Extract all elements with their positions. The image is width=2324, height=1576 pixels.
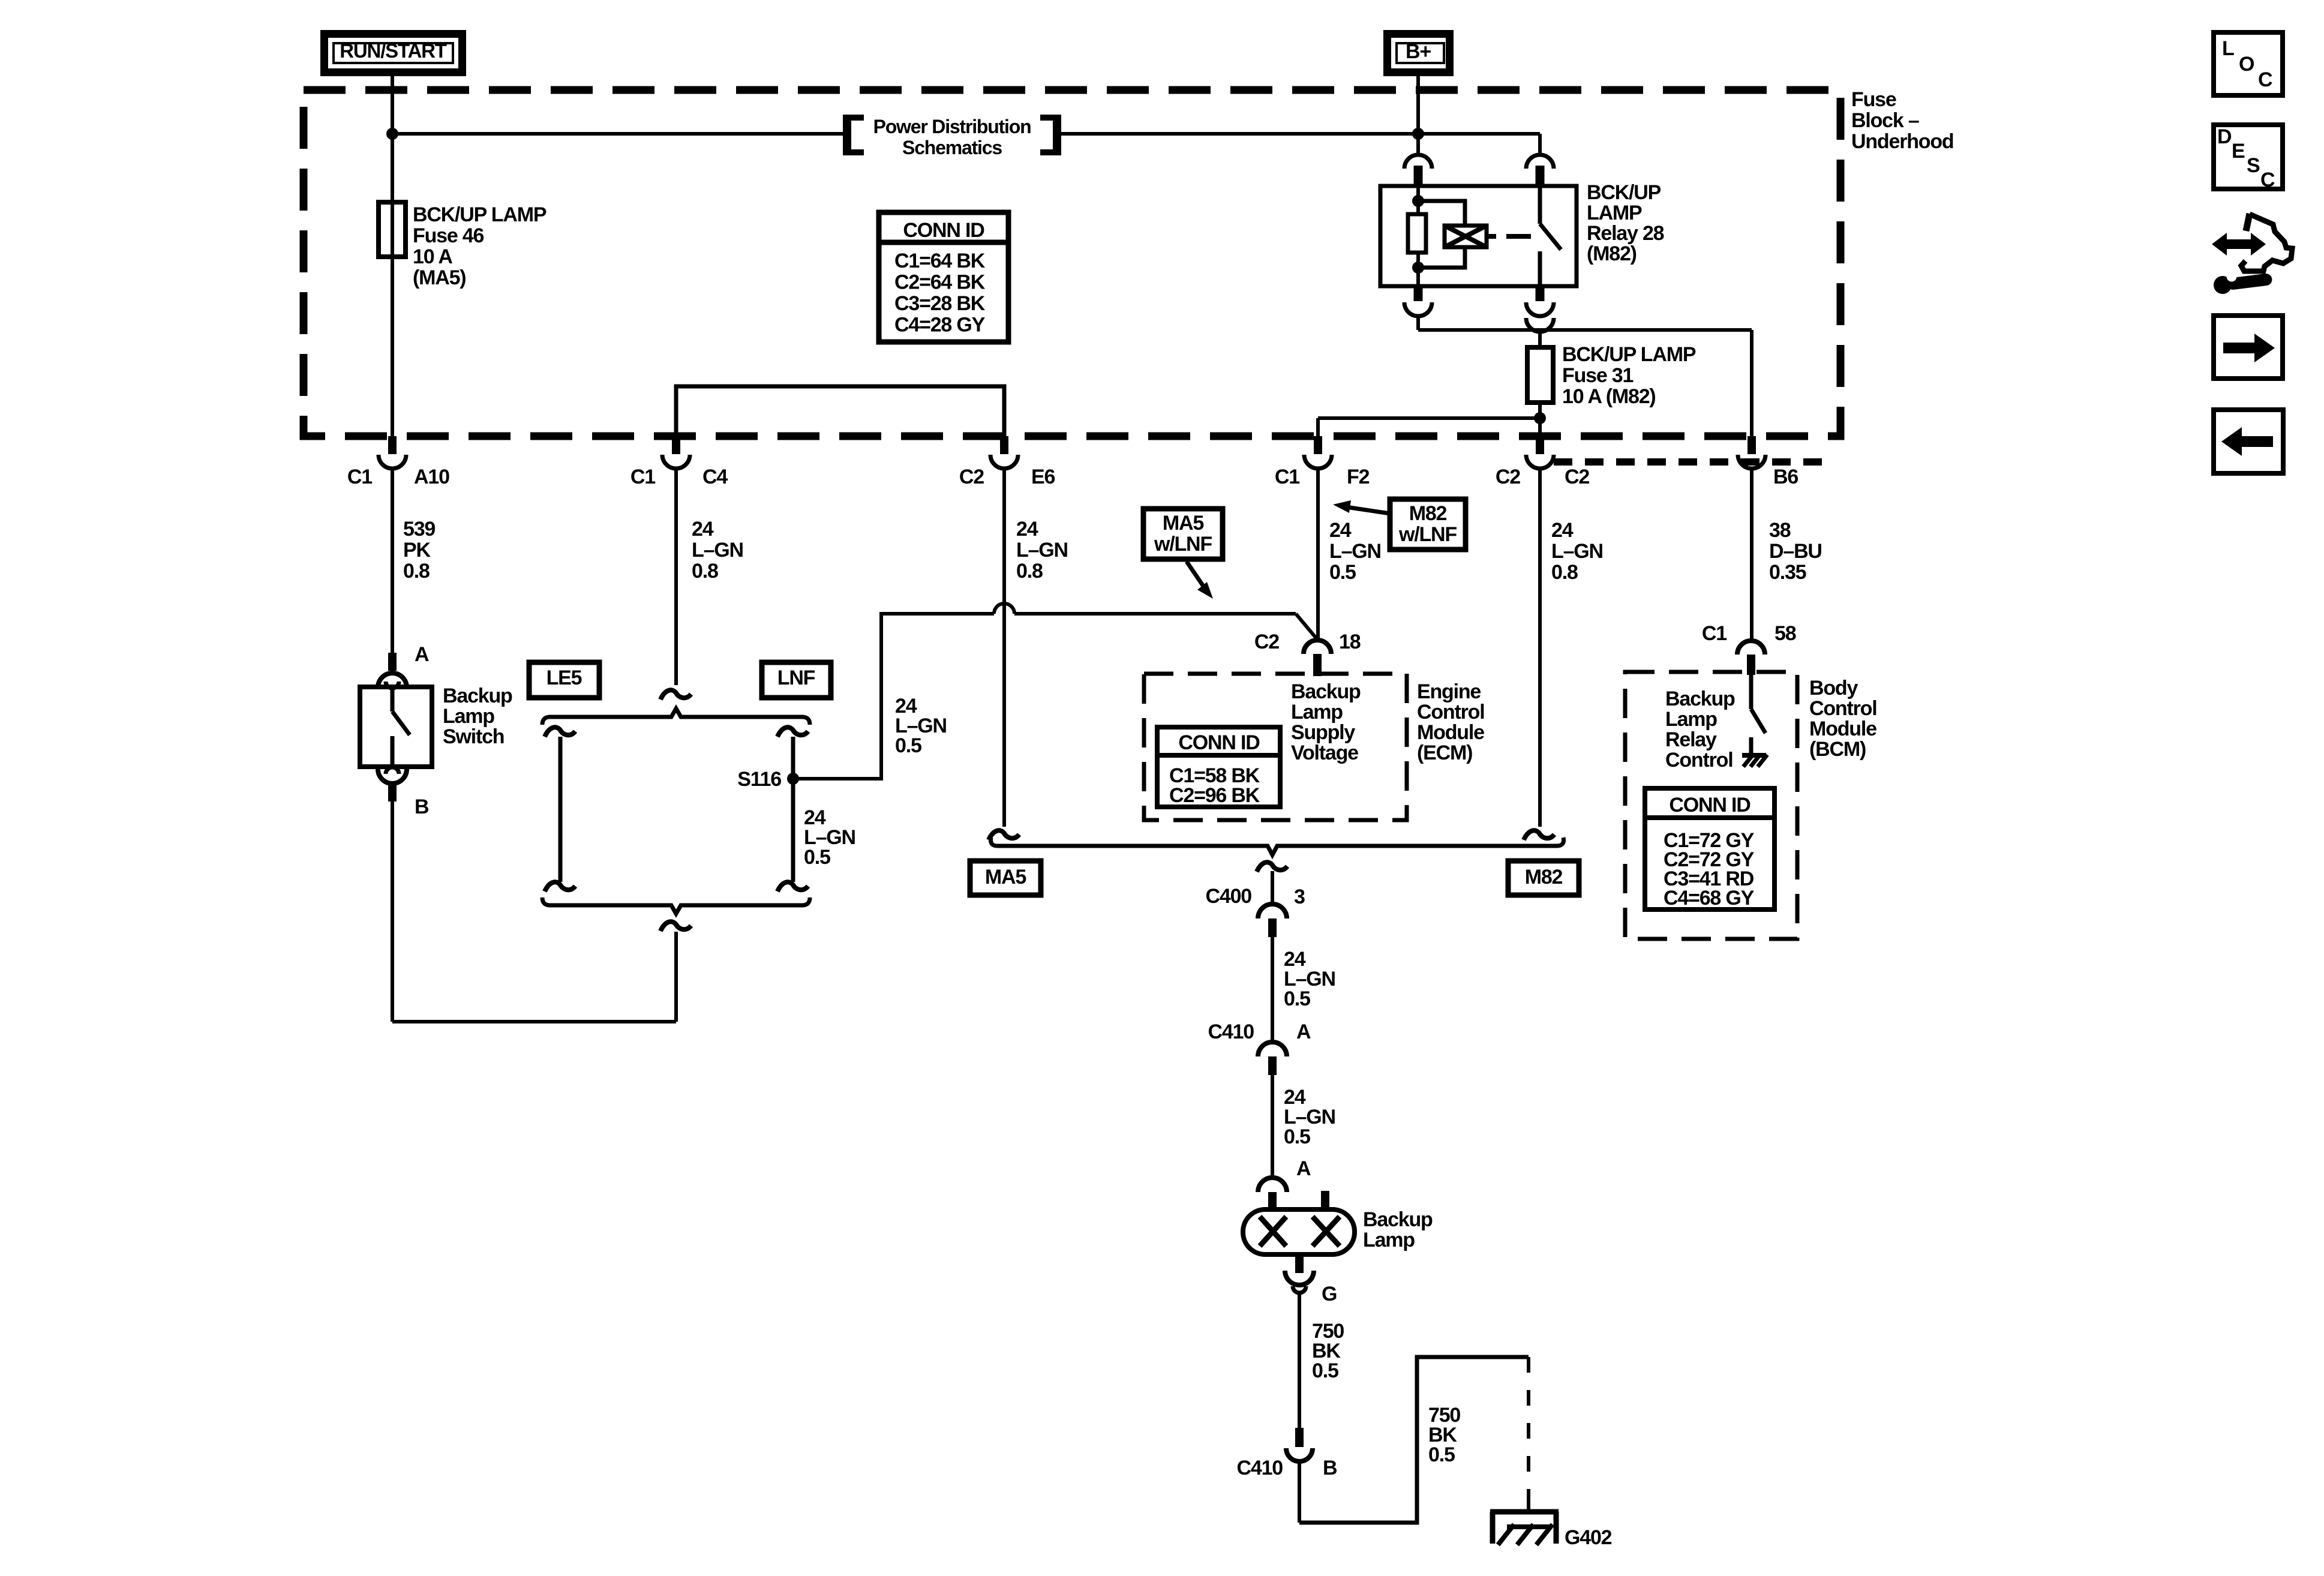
svg-text:0.8: 0.8 — [1551, 561, 1578, 584]
svg-text:(BCM): (BCM) — [1809, 738, 1866, 761]
svg-text:0.5: 0.5 — [1329, 561, 1356, 584]
svg-text:C: C — [2260, 169, 2275, 191]
svg-text:0.8: 0.8 — [1016, 560, 1043, 583]
svg-text:Control: Control — [1809, 697, 1876, 720]
svg-text:C1: C1 — [1702, 622, 1727, 645]
svg-text:Supply: Supply — [1291, 721, 1355, 744]
svg-text:Lamp: Lamp — [1665, 708, 1717, 731]
svg-text:L–GN: L–GN — [1551, 540, 1603, 563]
svg-text:BCK/UP LAMP: BCK/UP LAMP — [1562, 343, 1696, 366]
svg-text:58: 58 — [1774, 622, 1796, 645]
svg-text:C2=96 BK: C2=96 BK — [1169, 784, 1260, 807]
svg-text:C2: C2 — [959, 466, 984, 488]
svg-text:Lamp: Lamp — [1363, 1229, 1415, 1251]
svg-text:10 A (M82): 10 A (M82) — [1562, 385, 1656, 408]
svg-text:BCK/UP LAMP: BCK/UP LAMP — [413, 203, 547, 226]
svg-text:0.5: 0.5 — [1284, 1125, 1310, 1148]
svg-text:Lamp: Lamp — [443, 705, 494, 728]
svg-text:Lamp: Lamp — [1291, 701, 1343, 724]
svg-text:Fuse 46: Fuse 46 — [413, 224, 484, 247]
svg-text:24: 24 — [1016, 518, 1038, 541]
svg-text:0.5: 0.5 — [1284, 987, 1310, 1010]
svg-text:E: E — [2232, 140, 2245, 163]
svg-text:B6: B6 — [1773, 466, 1798, 488]
svg-text:C1: C1 — [1275, 466, 1299, 488]
svg-text:A: A — [1296, 1020, 1311, 1043]
svg-text:LE5: LE5 — [547, 667, 582, 689]
svg-text:BCK/UP: BCK/UP — [1587, 181, 1661, 204]
svg-text:L–GN: L–GN — [1016, 539, 1068, 562]
svg-text:Schematics: Schematics — [902, 137, 1002, 158]
svg-text:C4=68 GY: C4=68 GY — [1664, 887, 1755, 909]
svg-text:24: 24 — [1551, 519, 1574, 542]
svg-text:CONN ID: CONN ID — [1178, 731, 1260, 754]
svg-text:Body: Body — [1809, 677, 1858, 700]
svg-text:(ECM): (ECM) — [1417, 742, 1472, 764]
svg-text:Block –: Block – — [1851, 109, 1919, 132]
svg-text:B: B — [415, 795, 429, 818]
svg-text:C2: C2 — [1565, 466, 1589, 488]
svg-text:Control: Control — [1417, 701, 1484, 724]
svg-text:0.5: 0.5 — [1312, 1359, 1338, 1382]
svg-text:0.8: 0.8 — [403, 560, 430, 583]
svg-text:Power Distribution: Power Distribution — [873, 116, 1031, 137]
svg-text:Control: Control — [1665, 749, 1733, 772]
svg-text:Backup: Backup — [1291, 680, 1361, 703]
svg-text:G: G — [1322, 1283, 1337, 1305]
svg-text:C3=28 BK: C3=28 BK — [894, 292, 986, 315]
svg-text:0.5: 0.5 — [1428, 1443, 1455, 1466]
svg-text:A: A — [415, 643, 429, 666]
svg-text:Backup: Backup — [443, 685, 512, 707]
svg-text:O: O — [2239, 53, 2254, 76]
svg-text:M82: M82 — [1409, 502, 1447, 525]
svg-text:Fuse: Fuse — [1851, 88, 1896, 111]
svg-text:Backup: Backup — [1363, 1208, 1433, 1231]
svg-text:C: C — [2258, 68, 2272, 91]
svg-text:A: A — [1296, 1157, 1311, 1180]
svg-text:L: L — [2222, 37, 2234, 60]
svg-text:Relay: Relay — [1665, 728, 1717, 751]
svg-text:CONN ID: CONN ID — [1669, 794, 1750, 816]
svg-text:0.35: 0.35 — [1769, 561, 1806, 584]
svg-text:Module: Module — [1417, 721, 1484, 744]
svg-text:Underhood: Underhood — [1851, 130, 1954, 153]
svg-text:PK: PK — [403, 539, 431, 562]
svg-text:L–GN: L–GN — [1329, 540, 1381, 563]
svg-text:0.5: 0.5 — [895, 734, 921, 757]
svg-text:(M82): (M82) — [1587, 242, 1637, 265]
svg-text:w/LNF: w/LNF — [1398, 523, 1457, 546]
svg-text:CONN ID: CONN ID — [903, 219, 984, 242]
svg-text:C410: C410 — [1237, 1457, 1283, 1479]
svg-text:Switch: Switch — [443, 725, 504, 748]
svg-text:24: 24 — [692, 518, 714, 541]
svg-text:S116: S116 — [737, 768, 781, 791]
svg-text:C400: C400 — [1206, 885, 1252, 908]
svg-text:Fuse 31: Fuse 31 — [1562, 364, 1634, 387]
svg-text:0.8: 0.8 — [692, 560, 718, 583]
svg-text:10 A: 10 A — [413, 245, 452, 268]
svg-text:Backup: Backup — [1665, 688, 1735, 710]
svg-text:C2=64 BK: C2=64 BK — [894, 271, 986, 294]
svg-text:D–BU: D–BU — [1769, 540, 1822, 563]
svg-text:G402: G402 — [1565, 1526, 1612, 1549]
svg-text:C2: C2 — [1496, 466, 1520, 488]
svg-text:C1: C1 — [630, 466, 655, 488]
svg-text:C4: C4 — [702, 466, 728, 488]
svg-text:0.5: 0.5 — [804, 846, 830, 869]
svg-text:L–GN: L–GN — [692, 539, 743, 562]
svg-text:MA5: MA5 — [1163, 512, 1203, 535]
svg-text:D: D — [2217, 125, 2232, 148]
svg-text:Voltage: Voltage — [1291, 742, 1358, 764]
svg-text:3: 3 — [1294, 885, 1305, 908]
svg-text:Relay 28: Relay 28 — [1587, 222, 1664, 245]
svg-text:C2: C2 — [1254, 631, 1279, 653]
svg-text:LNF: LNF — [777, 667, 815, 689]
svg-text:C410: C410 — [1208, 1020, 1254, 1043]
svg-text:18: 18 — [1339, 631, 1361, 653]
svg-text:38: 38 — [1769, 519, 1791, 542]
svg-text:Engine: Engine — [1417, 680, 1481, 703]
svg-text:C4=28 GY: C4=28 GY — [894, 314, 986, 337]
svg-text:E6: E6 — [1031, 466, 1055, 488]
svg-text:C1: C1 — [347, 466, 372, 488]
svg-text:(MA5): (MA5) — [413, 266, 466, 289]
svg-text:539: 539 — [403, 518, 435, 541]
svg-text:S: S — [2247, 154, 2260, 177]
svg-text:Module: Module — [1809, 718, 1876, 740]
svg-text:LAMP: LAMP — [1587, 202, 1642, 224]
svg-text:B+: B+ — [1406, 40, 1431, 63]
svg-text:RUN/START: RUN/START — [340, 40, 446, 62]
svg-text:w/LNF: w/LNF — [1154, 533, 1212, 556]
svg-text:24: 24 — [1329, 519, 1352, 542]
svg-text:B: B — [1323, 1457, 1337, 1479]
svg-text:C1=64 BK: C1=64 BK — [894, 250, 986, 272]
svg-text:MA5: MA5 — [985, 866, 1026, 888]
svg-text:A10: A10 — [414, 466, 449, 488]
svg-text:M82: M82 — [1525, 866, 1563, 888]
svg-text:F2: F2 — [1347, 466, 1370, 488]
